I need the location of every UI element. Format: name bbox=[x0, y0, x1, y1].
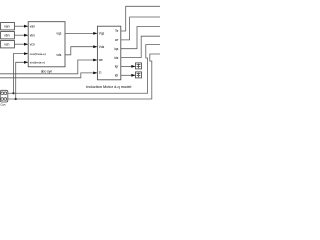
label iqs port bbox=[114, 47, 118, 51]
label Vqs port bbox=[99, 32, 105, 36]
label iqr port bbox=[115, 65, 119, 69]
inport block van bbox=[1, 23, 15, 30]
arrowhead sin(theta-e) bbox=[24, 61, 28, 64]
svg-text:vcn: vcn bbox=[30, 42, 35, 46]
label Te port bbox=[115, 29, 119, 33]
label wr port bbox=[115, 38, 119, 42]
svg-text:Vds: Vds bbox=[99, 45, 105, 49]
svg-text:iqs: iqs bbox=[114, 47, 118, 51]
wire idr to terminator 2 bbox=[121, 74, 134, 76]
arrowhead vbn bbox=[24, 34, 28, 37]
svg-text:Tl: Tl bbox=[99, 71, 102, 75]
svg-text:Te: Te bbox=[115, 29, 119, 33]
wire ids output bbox=[121, 36, 160, 57]
wire wr output bbox=[121, 17, 160, 40]
wire sin line B to right edge bbox=[8, 54, 160, 99]
arrowhead iqr bbox=[131, 65, 135, 68]
svg-text:Cos: Cos bbox=[0, 103, 6, 107]
label idr port bbox=[115, 74, 119, 78]
label ids port bbox=[114, 56, 118, 60]
block abc-syn bbox=[28, 22, 65, 67]
junction dot cos branch bbox=[12, 92, 14, 94]
wire cos line A to right edge bbox=[8, 45, 160, 94]
svg-text:Vqs: Vqs bbox=[99, 32, 105, 36]
svg-text:sin(theta-e): sin(theta-e) bbox=[30, 61, 45, 65]
label vcn source bbox=[4, 43, 9, 47]
wire vds to Vds bbox=[65, 47, 96, 55]
terminator block 2 bbox=[136, 72, 142, 78]
label abc-syn bbox=[41, 70, 53, 74]
inport block vbn bbox=[1, 32, 15, 39]
label Induction Motor d-q model bbox=[86, 84, 131, 89]
arrowhead idr bbox=[131, 74, 135, 77]
wire vqs to Vqs bbox=[65, 32, 96, 34]
arrowhead we bbox=[93, 59, 97, 62]
label vbn source bbox=[4, 34, 10, 38]
wire Tl line bbox=[0, 73, 96, 78]
svg-text:vds: vds bbox=[56, 53, 61, 57]
wire vbn to abc-syn bbox=[14, 34, 26, 36]
block Cos (unit vector source) bbox=[0, 90, 8, 102]
arrowhead cos(theta-e) bbox=[24, 52, 28, 55]
junction dot sin branch bbox=[15, 98, 17, 100]
arrowhead Tl bbox=[93, 72, 97, 75]
arrowhead vcn bbox=[24, 43, 28, 46]
svg-text:ids: ids bbox=[114, 56, 118, 60]
label vqs port bbox=[56, 32, 61, 36]
wire iqr to terminator 1 bbox=[121, 65, 134, 67]
svg-text:we: we bbox=[99, 58, 103, 62]
svg-text:abc-syn: abc-syn bbox=[41, 70, 53, 74]
wire sin riser to sin(theta-e) input bbox=[16, 62, 26, 99]
label van source bbox=[4, 25, 10, 29]
wire Te output bbox=[121, 6, 160, 31]
label vbn port bbox=[30, 33, 35, 37]
inport block vcn bbox=[1, 41, 15, 48]
terminator block 1 bbox=[136, 63, 142, 69]
label van port bbox=[30, 24, 35, 28]
svg-text:vbn: vbn bbox=[30, 33, 35, 37]
label cos(theta-e) port bbox=[30, 52, 46, 56]
wire cos riser to cos(theta-e) input bbox=[13, 54, 26, 94]
svg-text:Induction Motor d-q model: Induction Motor d-q model bbox=[86, 84, 131, 89]
arrowhead van bbox=[24, 25, 28, 28]
svg-text:cos(theta-e): cos(theta-e) bbox=[30, 52, 46, 56]
wire iqs output bbox=[121, 27, 160, 49]
svg-text:vcn: vcn bbox=[4, 43, 9, 47]
label Cos bbox=[0, 103, 6, 107]
svg-text:van: van bbox=[30, 24, 35, 28]
label Vds port bbox=[99, 45, 105, 49]
svg-text:van: van bbox=[4, 25, 10, 29]
label vds port bbox=[56, 53, 61, 57]
label vcn port bbox=[30, 42, 35, 46]
label sin(theta-e) port bbox=[30, 61, 45, 65]
label we port bbox=[99, 58, 103, 62]
wire van to abc-syn bbox=[14, 25, 26, 27]
wire vcn to abc-syn bbox=[14, 43, 26, 45]
block Induction Motor d-q model bbox=[97, 26, 120, 80]
arrowhead Vqs bbox=[93, 32, 97, 35]
wire we line bbox=[0, 60, 96, 74]
svg-text:vbn: vbn bbox=[4, 34, 10, 38]
svg-text:vqs: vqs bbox=[56, 32, 61, 36]
arrowhead Vds bbox=[93, 45, 97, 48]
label Tl port bbox=[99, 71, 102, 75]
